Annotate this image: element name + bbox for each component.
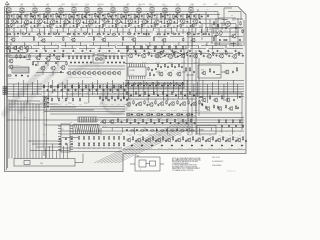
wire U1 pin R7 <box>70 143 73 145</box>
wire FL1 tick 0 <box>13 67 15 73</box>
resistor R193 <box>162 136 163 140</box>
resistor R8a <box>99 14 100 19</box>
resistor R236 <box>180 91 181 95</box>
wire bus m drop 43 <box>227 82 229 101</box>
svg-text:R138: R138 <box>72 104 75 106</box>
capacitor C85 <box>151 69 153 71</box>
junction lbdot2 <box>70 121 73 124</box>
resistor R80 <box>135 51 136 55</box>
svg-text:R301: R301 <box>224 30 227 32</box>
diode D86 <box>191 145 193 146</box>
capacitor C233 <box>157 94 159 96</box>
capacitor C301 <box>228 125 230 127</box>
transistor Q73 <box>201 71 205 76</box>
resistor R156 <box>199 100 200 104</box>
transistor Q57 <box>218 54 223 59</box>
capacitor C31 <box>178 33 180 35</box>
wire bus m drop 30 <box>162 84 164 101</box>
capacitor Cb6 <box>89 89 91 91</box>
junction 4b <box>46 18 49 21</box>
IF transformer T2 <box>20 8 24 13</box>
diode D84 <box>171 145 173 146</box>
coil L10 <box>27 58 31 61</box>
wire top drop 8 <box>56 29 58 33</box>
wire CN4 tick 9 <box>95 117 97 122</box>
antenna symbol <box>5 2 9 9</box>
crystal X1 <box>96 58 99 60</box>
wire T10 lead <box>125 7 127 14</box>
junction 7a <box>91 13 94 16</box>
capacitor Cs37 <box>35 50 37 52</box>
capacitor C267 <box>217 106 219 108</box>
svg-text:C194 10u: C194 10u <box>168 147 173 149</box>
resistor R277 <box>182 119 183 123</box>
resistor R25 <box>83 33 87 34</box>
resistor R255 <box>176 114 180 115</box>
junction 7b <box>85 18 88 21</box>
coil L40 <box>222 18 228 21</box>
resistor R14b <box>186 13 187 18</box>
svg-text:C152: C152 <box>58 93 61 95</box>
resistor R corner <box>213 21 214 25</box>
wire top bus d <box>5 23 236 25</box>
capacitor Cs45 <box>108 50 110 52</box>
svg-text:C156: C156 <box>86 93 89 95</box>
wire top drop 14 <box>91 29 93 35</box>
resistor R97 <box>217 23 218 27</box>
resistor R351 <box>164 64 165 68</box>
resistor R11a <box>138 14 139 19</box>
wire U1 pin R4 <box>70 135 73 137</box>
wire T14 lead <box>177 7 179 14</box>
resistor R31 <box>172 33 176 34</box>
svg-text:C153: C153 <box>65 93 68 95</box>
svg-text:C157: C157 <box>93 93 96 95</box>
resistor R6b <box>82 14 83 19</box>
transistor Q261 <box>213 98 218 103</box>
IF transformer T9 <box>111 8 115 13</box>
wire PLL pin 7 <box>144 76 146 79</box>
junction busdot1 <box>36 85 39 88</box>
transistor Q46 <box>96 71 100 76</box>
capacitor C7a <box>89 14 91 16</box>
box connector CN4 <box>78 117 97 122</box>
transistor Q29 <box>24 46 28 51</box>
capacitor C2c <box>32 15 34 17</box>
capacitor C266 <box>205 106 207 108</box>
resistor R350 <box>157 64 158 68</box>
ground G7 <box>86 25 88 27</box>
wire top drop 18 <box>117 27 119 33</box>
svg-text:C151: C151 <box>51 93 54 95</box>
wire U1 pin R0 <box>70 125 73 127</box>
junction 15b <box>189 18 192 21</box>
capacitor C270 <box>130 122 132 124</box>
wire bundle v0 <box>8 99 10 159</box>
watermark stroke 3 <box>38 64 98 106</box>
wire bundle v8 <box>32 103 34 159</box>
resistor R10c <box>128 23 129 27</box>
capacitor Cs35 <box>18 50 20 52</box>
junction tb8 <box>146 10 149 13</box>
wire top drop 23 <box>146 29 148 36</box>
wire bus m drop 20 <box>112 80 114 93</box>
resistor R5c <box>63 23 64 27</box>
capacitor C30 <box>163 33 165 35</box>
svg-text:R318: R318 <box>183 45 186 47</box>
resistor R4a <box>47 14 48 19</box>
capacitor C351 <box>167 66 169 68</box>
capacitor C193 <box>165 140 167 142</box>
resistor R1c <box>11 23 12 27</box>
resistor R161 <box>83 136 84 140</box>
capacitor C20 <box>13 33 15 35</box>
wire CN4 tick 0 <box>79 117 81 122</box>
junction lbdot1 <box>47 119 50 122</box>
svg-text:C12 220: C12 220 <box>154 28 159 30</box>
IF transformer T6 <box>72 8 76 13</box>
resistor R1a <box>8 14 9 19</box>
wire bus m drop 6 <box>43 84 45 101</box>
resistor R7b <box>95 13 96 18</box>
svg-text:Q57 Q58 R310 C300: Q57 Q58 R310 C300 <box>200 111 211 113</box>
left margin connector block <box>3 87 7 95</box>
capacitor C81 <box>151 55 153 57</box>
resistor R51 <box>109 55 110 59</box>
wire row2 drop 23 <box>170 46 172 51</box>
wire U1 pin R3 <box>70 133 73 135</box>
svg-text:L9 T9: L9 T9 <box>111 6 115 8</box>
wire low bus drop 1 <box>90 128 92 133</box>
diode D85 <box>181 145 183 146</box>
wire U1 pin L4 <box>58 135 61 137</box>
resistor R85 <box>200 51 201 55</box>
wire row2 bus c <box>5 41 243 43</box>
capacitor C10c <box>136 15 138 17</box>
page background <box>0 0 250 179</box>
capacitor C95 <box>239 39 241 41</box>
junction busdot2 <box>57 88 60 91</box>
transistor Q150 <box>126 102 131 107</box>
op-amp IC11 <box>172 51 185 58</box>
svg-text:R137: R137 <box>65 104 68 106</box>
capacitor C274 <box>162 122 164 124</box>
ground G4 <box>47 25 49 27</box>
wire T9 lead <box>112 7 114 14</box>
svg-text:R313: R313 <box>148 45 151 47</box>
wire row2 drop 29 <box>212 46 214 51</box>
capacitor C15b <box>199 21 201 23</box>
wire bus m drop 38 <box>202 80 204 97</box>
transistor Q53 <box>167 54 172 59</box>
resistor R139 <box>79 98 80 102</box>
wire bus m drop 16 <box>91 82 93 95</box>
wire bus m drop 14 <box>82 80 84 97</box>
wire rp wires <box>214 18 242 46</box>
wire J1 lead 1 <box>45 149 47 159</box>
transistor Q151 <box>137 101 142 106</box>
wire top drop 21 <box>135 27 137 32</box>
wire top drop 15 <box>98 27 100 34</box>
resistor R130 <box>44 96 45 100</box>
resistor R330 <box>128 82 129 86</box>
capacitor C199 <box>225 140 227 142</box>
ground G10 <box>125 25 127 27</box>
transistor Q50 <box>127 53 132 58</box>
wire low bus drop 9 <box>176 128 178 131</box>
resistor Rb2 <box>57 85 58 89</box>
transistor Q81 <box>217 31 223 36</box>
wire low bus drop 10 <box>189 128 191 133</box>
resistor R181 <box>123 143 124 147</box>
wire corner wires <box>198 8 241 40</box>
svg-text:C15 .01: C15 .01 <box>193 28 197 30</box>
capacitor Cs50 <box>154 50 156 52</box>
wire bus m drop 18 <box>102 84 104 101</box>
capacitor C153 <box>168 104 170 106</box>
svg-text:Q153 C153: Q153 C153 <box>160 110 166 112</box>
wire top drop 27 <box>170 27 172 34</box>
capacitor Cs38 <box>45 50 47 52</box>
resistor R93 <box>209 68 210 72</box>
junction 15a <box>195 13 198 16</box>
wire bottom bus f <box>62 148 122 152</box>
resistor R231 <box>135 91 136 95</box>
wire top drop 32 <box>200 29 202 33</box>
wire row2 drop 9 <box>71 46 73 49</box>
wire row2 drop 22 <box>163 42 165 46</box>
junction 3b <box>33 18 36 21</box>
transistor Q199 <box>216 138 221 143</box>
resistor R27 <box>112 34 116 35</box>
resistor R14a <box>177 13 178 18</box>
resistor R146 <box>117 118 118 122</box>
box relay box RL1 <box>9 53 27 58</box>
wire row2 drop 1 <box>16 46 18 50</box>
wire bus m drop 41 <box>217 80 219 95</box>
capacitor C332 <box>137 84 139 86</box>
capacitor C26 <box>103 33 105 35</box>
wire J2 tick 3 <box>80 125 82 134</box>
wire low bus drop 3 <box>111 128 113 131</box>
wire row2 drop 8 <box>64 42 66 47</box>
capacitor C201 <box>245 140 247 142</box>
svg-text:L6 T6: L6 T6 <box>72 6 76 8</box>
resistor R232 <box>144 91 145 95</box>
wire bundle v4 <box>20 101 22 159</box>
svg-text:C198 10u: C198 10u <box>208 147 213 149</box>
resistor R253 <box>156 114 160 115</box>
transistor Q7 <box>88 19 94 24</box>
resistor R15c <box>193 23 194 27</box>
capacitor Cl1 <box>65 143 67 145</box>
diode D46 <box>191 114 193 115</box>
resistor R163 <box>93 136 94 140</box>
capacitor C144 <box>126 99 128 101</box>
svg-text:C150: C150 <box>44 93 47 95</box>
junction 4a <box>52 13 55 16</box>
wire top drop 6 <box>43 27 45 33</box>
wire top drop 30 <box>188 27 190 33</box>
wire bus m drop 24 <box>132 84 134 97</box>
wire bus m drop 32 <box>173 80 175 93</box>
capacitor C92 <box>213 71 215 73</box>
transistor Q197 <box>196 138 201 143</box>
inner bottom double line <box>123 149 246 151</box>
resistor R140 <box>99 96 100 100</box>
wire low bus drop 4 <box>122 128 124 133</box>
svg-text:C4 47P: C4 47P <box>50 28 54 30</box>
capacitor C300 <box>221 125 223 127</box>
svg-text:SCHEMATIC: SCHEMATIC <box>212 160 224 163</box>
resistor R296 <box>190 130 194 131</box>
capacitor C130 <box>47 97 49 99</box>
transistor Q191 <box>136 138 141 143</box>
resistor R2a <box>21 14 22 19</box>
resistor Rb7 <box>92 85 93 89</box>
ground G15 <box>190 25 192 27</box>
wire bus m drop 44 <box>232 80 234 93</box>
resistor Rb4 <box>71 85 72 89</box>
resistor R29b <box>153 37 154 41</box>
svg-text:Q28 Q29: Q28 Q29 <box>102 126 107 128</box>
svg-text:C201 1K: C201 1K <box>238 147 243 149</box>
wire J1 to frame <box>75 154 83 163</box>
wire U1 pin R2 <box>70 130 73 132</box>
resistor R353 <box>178 64 179 68</box>
IF transformer T15 <box>189 8 193 13</box>
wire FL1 tick 1 <box>15 67 17 73</box>
resistor R334 <box>152 82 153 86</box>
resistor R165 <box>103 136 104 140</box>
junction 6b <box>72 18 75 21</box>
svg-text:C231: C231 <box>136 98 139 100</box>
resistor R4b <box>56 13 57 18</box>
transistor Q35 <box>40 66 45 71</box>
capacitor C23 <box>58 33 60 35</box>
capacitor C333 <box>143 84 145 86</box>
svg-text:R310: R310 <box>127 45 130 47</box>
capacitor C275 <box>170 122 172 124</box>
junction tb3 <box>61 22 64 25</box>
wire row2 drop 11 <box>86 46 88 51</box>
transistor Q264 <box>217 106 222 111</box>
wire J1 lead 4 <box>55 151 57 159</box>
resistor R9b <box>121 14 122 19</box>
transistor Q1 <box>11 19 17 24</box>
wire top drop 28 <box>176 28 178 32</box>
svg-text:C196 473: C196 473 <box>188 147 193 149</box>
diode D1 <box>17 33 19 34</box>
resistor R264 <box>221 95 222 99</box>
svg-text:OSC 10.24: OSC 10.24 <box>138 4 145 6</box>
transistor Q12 <box>154 20 160 25</box>
svg-text:R61 C88 D6: R61 C88 D6 <box>8 78 15 80</box>
resistor R82 <box>161 51 162 55</box>
wire T8 lead <box>99 7 101 14</box>
svg-text:4.5V: 4.5V <box>203 4 206 6</box>
diode D62 <box>146 129 148 130</box>
diode D40 <box>131 114 133 115</box>
capacitor C33 <box>208 33 210 35</box>
capacitor Cs47 <box>127 50 129 52</box>
capacitor Cs58 <box>225 50 227 52</box>
wire row2 drop 31 <box>225 46 227 50</box>
wire top drop 9 <box>62 27 64 32</box>
svg-text:Q35 R88 C91: Q35 R88 C91 <box>34 75 42 77</box>
wire rm bus2 <box>125 81 244 84</box>
capacitor C21 <box>28 33 30 35</box>
wire J2 tick 7 <box>88 125 90 134</box>
resistor R291 <box>140 130 144 131</box>
resistor R300 <box>218 119 219 123</box>
wire row2 drop 26 <box>191 42 193 47</box>
diode D45 <box>181 114 183 115</box>
ground G5 <box>60 25 62 27</box>
resistor R85 <box>148 67 149 71</box>
capacitor C200 <box>235 140 237 142</box>
capacitor C140 <box>102 99 104 101</box>
svg-text:R317: R317 <box>176 45 179 47</box>
fan of routing diagonals <box>94 120 184 163</box>
svg-text:R178: R178 <box>108 148 111 150</box>
wire J2 tick 6 <box>86 125 88 134</box>
svg-text:C193 1K: C193 1K <box>158 147 163 149</box>
box right section box <box>196 93 242 113</box>
capacitor Cb3 <box>68 89 70 91</box>
resistor R191 <box>142 136 143 140</box>
resistor R29 <box>143 33 147 34</box>
wire bus m drop 1 <box>17 82 19 97</box>
transistor Q37 <box>60 65 65 70</box>
wire CN4 tick 6 <box>89 117 91 122</box>
resistor R132 <box>44 104 45 108</box>
wire row2 drop 12 <box>92 42 94 45</box>
wire bus m drop 35 <box>186 80 188 99</box>
transistor Q260 <box>201 98 206 103</box>
junction 10b <box>124 18 127 21</box>
coil L42 <box>214 34 218 37</box>
svg-text:C143: C143 <box>117 104 120 106</box>
wire top drop 29 <box>182 29 184 34</box>
capacitor C52 <box>115 61 117 63</box>
watermark small tail <box>60 86 92 104</box>
wire bus m drop 42 <box>223 84 225 101</box>
resistor R275 <box>166 119 167 123</box>
wire top drop 1 <box>13 28 15 33</box>
box PLL section <box>127 49 184 88</box>
wire row2 drop 32 <box>233 42 235 47</box>
wire low bus drop 12 <box>210 128 212 131</box>
wire low bus drop 5 <box>133 128 135 135</box>
wire T1 lead <box>8 7 10 14</box>
svg-text:D66 C296: D66 C296 <box>187 133 192 135</box>
capacitor Cs44 <box>98 50 100 52</box>
resistor R88 <box>238 51 239 55</box>
wire center row bus <box>44 107 125 115</box>
wire CN4 tick 3 <box>84 117 86 122</box>
svg-text:R253 223: R253 223 <box>157 118 162 120</box>
wire low bus drop 0 <box>78 128 80 131</box>
capacitor C192 <box>155 140 157 142</box>
capacitor C28 <box>133 33 135 35</box>
svg-text:R136: R136 <box>58 104 61 106</box>
svg-text:Q151 C151: Q151 C151 <box>138 110 144 112</box>
wire row2 drop 15 <box>115 46 117 49</box>
svg-text:R139: R139 <box>79 104 82 106</box>
svg-text:C235: C235 <box>172 98 175 100</box>
coil L30 <box>216 73 220 76</box>
